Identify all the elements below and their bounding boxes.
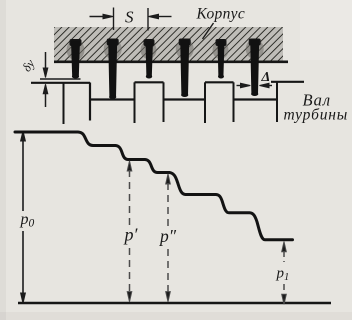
groove floor 3 [233,98,279,100]
dimension S extension line left [113,8,115,31]
svg-text:p″: p″ [158,226,177,246]
p0 dimension line with arrows [21,131,26,303]
land 3 left edge [204,82,206,123]
housing hatched block (Корпус) [54,27,283,62]
land 4 left edge [276,82,278,122]
shaft land top line 1 with left extension [31,82,90,84]
p1 dimension dashed line with arrows [282,242,287,305]
land 2 right edge [163,82,165,122]
dimension S extension line right [147,8,149,31]
tooth tip bulbs [72,75,258,100]
tooth 6 (long) [250,40,259,95]
p-double-prime dashed line with arrows [166,174,171,302]
groove floor 1 [89,98,136,100]
land 3 right edge [233,82,235,122]
land 2 top [135,81,164,83]
svg-text:Δ: Δ [261,70,271,85]
baseline [18,302,331,305]
tooth 1 (short) [71,41,80,78]
land 1 left edge [63,83,65,125]
svg-text:Корпус: Корпус [196,6,246,23]
svg-text:S: S [125,8,134,27]
leader line for Корпус [203,23,214,39]
delta dimension arrows [237,83,273,88]
S arrow right [149,14,172,19]
land 1 right edge [89,83,91,121]
tooth tip extension line [40,78,81,80]
land 3 top [205,81,234,83]
delta-y lower arrow [43,84,48,107]
groove floor 2 [163,98,207,100]
tooth 3 (short) [146,41,154,78]
delta-y upper arrow [43,52,48,78]
pressure staircase curve [15,132,293,240]
land 2 left edge [134,82,136,123]
tooth 4 (long) [180,40,189,96]
svg-text:турбины: турбины [284,107,349,124]
land 4 top [271,81,304,83]
tooth 5 (short) [218,41,225,78]
housing bottom border [54,60,288,63]
S arrow left [90,14,114,19]
gray smudges around tooth roots [67,39,264,60]
tooth top caps [70,39,261,47]
p-prime dashed line with arrows [127,161,132,302]
scan tone overlays [0,0,6,320]
tooth 2 (long) [108,40,117,98]
svg-text:p′: p′ [123,225,139,245]
